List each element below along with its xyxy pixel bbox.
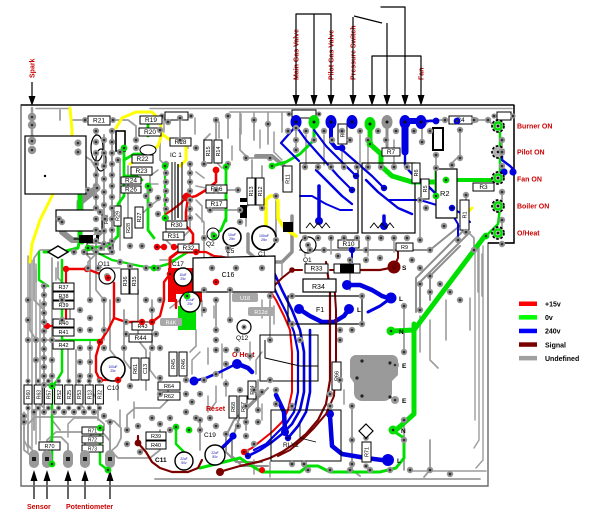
yellow small right [464,208,472,228]
resistor R71b [82,427,103,434]
capacitor C5 [223,228,241,246]
svg-text:R1: R1 [463,211,469,218]
yellow trace loop R19/R20 [116,112,162,164]
green block near C4 [178,306,196,330]
svg-text:R36: R36 [123,276,129,286]
svg-text:C11: C11 [155,457,167,464]
svg-text:N: N [401,428,406,435]
maroon S-pad trace [394,250,398,267]
resistor R64b vertical [248,381,256,399]
resistor R13 R12 [247,178,255,205]
spark gap pads [28,113,36,121]
svg-text:R45: R45 [171,359,177,369]
resistor R8 vertical [338,124,347,144]
capacitor C17 [174,268,192,286]
diode D1 [79,235,99,243]
wire: valve bracket [296,14,331,100]
resistor R22 [132,155,153,163]
svg-text:R2: R2 [440,189,450,198]
svg-text:R62: R62 [164,394,174,400]
blue thick bar x405 [402,121,409,152]
green trace: left big vertical [80,186,82,242]
svg-text:Sensor: Sensor [27,504,51,511]
svg-text:Signal: Signal [545,342,566,349]
capacitor C16 box [193,256,275,292]
net badge D13 [248,307,274,316]
fuse F1 box [288,296,362,324]
resistor R53 [75,385,83,404]
svg-text:Potentiometer: Potentiometer [66,504,113,511]
capacitor ellipse C2 [91,135,103,161]
svg-text:R12d: R12d [254,310,267,316]
E pads [391,361,399,369]
svg-text:F1: F1 [316,307,324,314]
svg-text:R30: R30 [171,222,183,229]
resistor R39 [53,301,74,309]
svg-text:25v: 25v [180,277,186,281]
blue diagonals from top pads [281,126,299,161]
rect A optocoupler [300,163,358,233]
resistor R25 [65,385,73,404]
svg-text:S: S [402,265,407,272]
svg-text:Pilot Gas Valve: Pilot Gas Valve [329,30,336,80]
resistor R13 [85,385,93,404]
green trace: diagonal to center [154,246,198,268]
transformer T1 outline [25,136,86,194]
resistor R43 [132,322,153,330]
blue inside rectA [316,170,352,204]
green trace: pad to fan row [370,128,446,182]
svg-text:R57: R57 [47,390,53,399]
green loop bottom right [240,430,404,472]
svg-text:R72: R72 [88,438,97,444]
resistor R45 R46 vertical pair [169,352,177,376]
transistor Q2 [207,228,219,240]
svg-text:Pilot ON: Pilot ON [517,150,545,157]
resistor R38 [53,292,74,300]
capacitor C19 [205,445,225,465]
svg-text:Q2: Q2 [206,241,215,248]
diode black vertical [240,198,247,218]
svg-text:R52: R52 [57,390,63,399]
svg-text:R22: R22 [137,156,149,163]
svg-text:O/Heat: O/Heat [517,231,540,238]
resistor R17 [206,200,227,208]
resistor R11 [283,166,292,192]
resistor R30 [166,221,187,229]
red trace: bottom-left network [66,269,108,278]
gray trace web [31,108,34,140]
svg-text:R46: R46 [181,359,187,369]
green trace bottom-left [62,339,100,341]
resistor R1 vertical [460,200,469,230]
svg-text:0v: 0v [545,315,553,322]
svg-text:RLY1: RLY1 [283,442,299,449]
heatsink blob [350,355,398,401]
diamond diode left [48,246,68,258]
diode D12 [334,264,360,273]
red pads bottom [259,467,265,473]
svg-text:IC 1: IC 1 [170,152,182,159]
svg-text:Fan ON: Fan ON [517,177,542,184]
blue J-loop pad [331,124,341,148]
svg-text:R40: R40 [151,443,161,449]
svg-text:R35: R35 [132,276,138,286]
connector ovals bottom [29,450,39,468]
svg-text:R39: R39 [58,303,68,309]
svg-text:50v: 50v [212,455,218,459]
resistor R37 [53,283,74,291]
svg-text:R21: R21 [93,118,105,125]
svg-text:R42: R42 [58,343,68,349]
svg-text:R4K: R4K [166,321,177,327]
resistor R19 [140,116,162,124]
resistor R14 [214,140,222,163]
spark arrow [31,82,33,99]
svg-text:R19: R19 [145,117,157,124]
resistor R66 vertical [332,362,341,390]
resistor R6 R5 vertical [412,163,420,183]
resistor R36 R35 vertical [121,269,129,294]
resistor R71 vertical [362,442,371,462]
svg-text:R14: R14 [216,146,222,156]
svg-text:R28: R28 [126,223,132,233]
capacitor C3 black box [116,131,125,151]
svg-text:C19: C19 [204,432,216,439]
resistor R34 [303,279,336,292]
svg-text:E: E [402,363,407,370]
resistor R32 [95,385,103,404]
green big diagonal right [392,237,484,331]
blue C19 diagonal [212,437,233,458]
svg-text:R23: R23 [136,168,148,175]
resistor R73 [82,445,103,452]
svg-text:E: E [402,398,407,405]
resistor R27 R28 R29 vertical cluster [135,207,143,228]
resistor R61 R60 vertical pair [131,358,139,380]
capacitor C11 [175,452,193,470]
svg-text:R73: R73 [88,447,97,453]
wire [386,23,388,100]
svg-text:R44: R44 [135,335,147,342]
svg-text:R39: R39 [151,434,161,440]
svg-text:R15: R15 [206,146,212,156]
component box with diagonal [260,335,318,381]
svg-text:R24: R24 [125,178,137,185]
resistor R31 [163,232,184,240]
resistor R40 [53,319,74,327]
resistor R20 [139,128,161,136]
resistor R64 [158,382,180,390]
blue inside rectB [366,180,412,214]
svg-text:Undefined: Undefined [545,356,579,363]
blue bottom-left bits [351,250,353,262]
svg-text:Reset: Reset [206,406,226,413]
connector pads top row [291,115,302,129]
resistor R41 [53,328,74,336]
resistor R23 [131,167,152,175]
resistor R21 [88,116,110,125]
resistor R52 [55,385,63,404]
relay K1 outline [56,210,102,231]
wire: top bracket [381,7,405,100]
resistor jumper top [165,112,188,120]
svg-text:R64: R64 [164,384,174,390]
resistor R63 [34,385,42,404]
svg-text:R5: R5 [423,185,429,192]
resistor R32 [178,244,199,252]
wire: pressure switch [352,17,354,100]
green bottom center bits [176,428,184,452]
svg-text:Main Gas Valve: Main Gas Valve [294,29,301,80]
resistor R18 [170,138,191,146]
svg-text:R70: R70 [44,444,54,450]
svg-text:C13: C13 [143,364,149,374]
svg-text:R11: R11 [286,174,292,184]
resistor R72 [82,436,103,443]
svg-text:C17: C17 [172,261,184,268]
transistor Q11 [99,268,115,284]
transistor Q12 [237,320,251,334]
svg-text:R37: R37 [58,285,68,291]
red trace: C16 to right [244,270,292,452]
svg-text:R9: R9 [401,245,408,251]
svg-text:R20: R20 [144,129,156,136]
resistor R33 [305,264,328,273]
svg-text:+15v: +15v [545,302,561,309]
resistor R3 [473,183,494,191]
svg-text:N: N [399,329,404,336]
svg-text:R13: R13 [87,390,93,399]
black resistor vertical [433,128,443,150]
svg-text:L: L [399,296,403,303]
red pads [105,275,111,281]
blue pads [349,187,355,193]
blue L pad left [368,298,391,312]
resistor R9 [396,243,413,251]
svg-text:R3: R3 [479,184,488,191]
transistor Q1 [300,237,316,253]
svg-text:R63: R63 [36,390,42,399]
svg-text:Spark: Spark [30,58,37,78]
svg-text:R27: R27 [137,212,143,222]
black square component [283,222,293,232]
LED D5-D9 indicators [492,120,504,132]
green vertical LED link [499,130,502,178]
svg-text:Pressure Switch: Pressure Switch [351,26,358,80]
svg-text:R7: R7 [387,149,396,156]
green trace: top pads link [272,126,314,166]
resistor R68 R67 vertical [229,396,237,418]
svg-text:Q12: Q12 [236,335,249,342]
yellow trace left [30,108,72,262]
capacitor C10 [101,357,125,381]
resistor R10 [338,240,359,248]
svg-text:50v: 50v [181,461,187,465]
rect B optocoupler [362,163,415,233]
maroon around C11 [138,443,202,472]
resistor R62 [158,392,180,400]
svg-text:R41: R41 [58,330,68,336]
svg-text:R13: R13 [249,186,255,196]
svg-text:R71: R71 [365,447,371,457]
resistor R42 [53,341,74,349]
svg-text:Burner ON: Burner ON [517,124,552,131]
switch lever [354,16,382,23]
wire [313,14,315,100]
resistor R7 [382,148,400,156]
blue in RLY1 [276,395,285,430]
net badge D18 [232,293,258,302]
capacitor C4 [180,292,200,312]
blue horizontal top link [405,118,421,124]
svg-text:R26: R26 [125,187,137,194]
svg-text:R71: R71 [88,429,97,435]
red trace: center network [174,170,216,247]
svg-text:R33: R33 [311,266,323,273]
svg-text:25v: 25v [261,238,267,242]
svg-text:240v: 240v [545,329,561,336]
red trace top of C16 [196,252,262,270]
blue O/Heat bar [238,364,252,372]
svg-text:L: L [397,458,401,465]
diode diamond [359,424,373,438]
resistor R15 [204,140,212,163]
svg-text:L: L [357,307,361,314]
svg-text:R60: R60 [26,390,32,399]
svg-text:C10: C10 [107,385,119,392]
resistor R44 [129,334,152,342]
yellow trace center [266,196,296,236]
inductor ellipse [140,145,156,155]
small box top-right corner [497,112,511,120]
blue river down center [248,268,304,456]
svg-text:25v: 25v [229,237,235,241]
svg-text:R31: R31 [168,233,180,240]
capacitor C1 [252,226,276,250]
bottom arrows [33,476,35,499]
resistor R60 [24,385,32,404]
blue thick L-pad curves [347,285,388,298]
svg-text:R6: R6 [414,169,420,176]
green pads [85,245,92,252]
svg-text:U18: U18 [240,296,250,302]
resistor R26 [121,186,141,193]
svg-text:R17: R17 [211,201,223,208]
green trace: IC vertical [164,166,166,218]
svg-text:Q1: Q1 [303,257,312,264]
svg-text:Fan: Fan [419,68,426,80]
svg-text:R29: R29 [116,211,122,221]
resistor R2 big [436,169,457,218]
resistor R39b [146,432,166,440]
wire: lower bracket [372,56,421,100]
maroon river down [220,262,330,472]
svg-text:R68: R68 [231,402,237,412]
svg-text:R32: R32 [98,390,104,399]
resistor R70 [39,442,60,450]
resistor R4 [449,116,472,124]
N pads [387,327,396,336]
legend [519,302,537,307]
svg-text:R25: R25 [67,390,73,399]
svg-text:25v: 25v [187,302,193,306]
svg-text:R53: R53 [77,390,83,399]
net badge R4K [160,318,182,326]
svg-text:R34: R34 [312,284,325,291]
resistor R57 [44,385,52,404]
maroon trace: top R33/D12 row [292,269,302,271]
RLY1 box [271,410,341,461]
connector 3-pad strip [87,243,113,254]
red blob around C17/C4 [168,268,202,302]
resistor jumper top2 [292,110,316,118]
arrowheads top [293,95,300,106]
green trace: center-left network [88,148,124,248]
wire [386,55,388,58]
svg-text:C16: C16 [222,272,235,279]
board outline [21,105,514,486]
pad field [285,128,291,134]
svg-text:R12: R12 [258,186,264,196]
svg-text:R61: R61 [133,364,139,374]
svg-text:25v: 25v [110,369,116,373]
resistor R40b [146,441,166,449]
svg-text:Boiler ON: Boiler ON [517,204,549,211]
resistor R16 [206,185,227,193]
resistor R24 [121,177,141,184]
